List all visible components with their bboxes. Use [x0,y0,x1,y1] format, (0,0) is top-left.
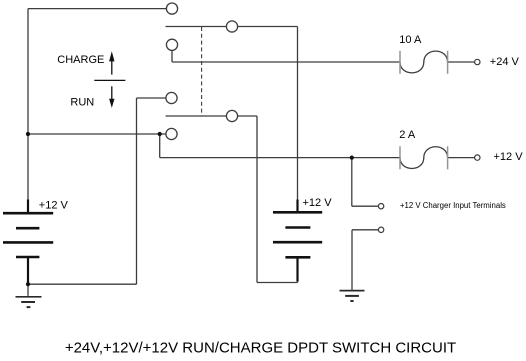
svg-text:+12 V: +12 V [303,197,333,209]
svg-text:RUN: RUN [70,97,94,109]
svg-text:CHARGE: CHARGE [57,54,104,66]
svg-text:10 A: 10 A [399,34,422,46]
svg-text:2 A: 2 A [399,129,416,141]
svg-text:+24V,+12V/+12V RUN/CHARGE DPDT: +24V,+12V/+12V RUN/CHARGE DPDT SWITCH CI… [65,339,456,356]
svg-text:+12 V: +12 V [494,151,524,163]
svg-text:+12 V: +12 V [39,200,69,212]
svg-text:+12 V Charger Input Terminals: +12 V Charger Input Terminals [400,201,506,210]
svg-text:+24 V: +24 V [490,56,520,68]
